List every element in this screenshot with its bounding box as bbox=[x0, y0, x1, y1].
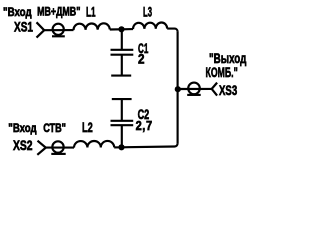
connector XS2 plug chevron bbox=[37, 141, 46, 155]
wire L3 to right corner bbox=[167, 29, 177, 32]
svg-text:МВ+ДМВ": МВ+ДМВ" bbox=[37, 5, 80, 19]
svg-text:L2: L2 bbox=[82, 119, 93, 136]
wire output node to XS3 (through socket circle) bbox=[178, 88, 212, 90]
svg-text:L3: L3 bbox=[143, 6, 152, 21]
connector XS3 socket circle bbox=[188, 83, 200, 95]
node A junction dot bbox=[118, 26, 124, 32]
wire C2 to node C bbox=[121, 125, 123, 147]
inductor L3 bbox=[133, 22, 167, 29]
connector XS3 shield bar bbox=[187, 94, 201, 96]
capacitor C1 top plate bbox=[111, 49, 134, 51]
node B output junction dot bbox=[175, 86, 181, 92]
svg-text:2,7: 2,7 bbox=[136, 118, 153, 133]
chassis ground bar under C1 bbox=[111, 75, 131, 77]
connector XS1 shield bar bbox=[52, 35, 65, 37]
svg-text:СТВ": СТВ" bbox=[43, 122, 66, 136]
svg-text:XS2: XS2 bbox=[13, 137, 33, 153]
node C junction dot (C2 to bottom wire) bbox=[118, 144, 124, 150]
connector XS1 plug chevron bbox=[37, 22, 45, 37]
svg-text:XS1: XS1 bbox=[14, 19, 33, 35]
wire L1 to L3 through node A bbox=[110, 28, 133, 31]
wire node A down to C1 bbox=[121, 29, 123, 49]
inductor L1 bbox=[73, 23, 109, 30]
capacitor C2 bottom plate bbox=[111, 124, 134, 126]
capacitor C1 bottom plate bbox=[111, 54, 134, 56]
wire XS1 to L1 (through socket circle) bbox=[44, 29, 73, 31]
svg-text:КОМБ.": КОМБ." bbox=[206, 65, 238, 81]
inductor L2 bbox=[74, 141, 114, 148]
connector XS2 socket circle bbox=[52, 141, 63, 152]
wire output node down to bottom corner bbox=[177, 89, 179, 143]
wire chassis bar to C2 bbox=[121, 99, 123, 121]
wire C1 to chassis bar bbox=[121, 55, 123, 76]
svg-text:L1: L1 bbox=[86, 6, 96, 21]
wire XS2 to L2 (through socket circle) bbox=[46, 147, 74, 149]
connector XS3 plug chevron bbox=[212, 83, 217, 96]
wire right vertical down to output node bbox=[177, 32, 179, 89]
capacitor C2 top plate bbox=[111, 120, 134, 122]
svg-text:"Вход: "Вход bbox=[8, 122, 36, 135]
connector XS1 socket circle bbox=[53, 24, 64, 35]
svg-text:XS3: XS3 bbox=[219, 82, 237, 98]
chassis ground bar above C2 bbox=[112, 98, 132, 100]
connector XS2 shield bar bbox=[51, 153, 65, 155]
svg-text:2: 2 bbox=[138, 52, 144, 67]
svg-text:"Вход: "Вход bbox=[3, 6, 32, 19]
wire bottom corner to L2 bbox=[114, 143, 177, 147]
